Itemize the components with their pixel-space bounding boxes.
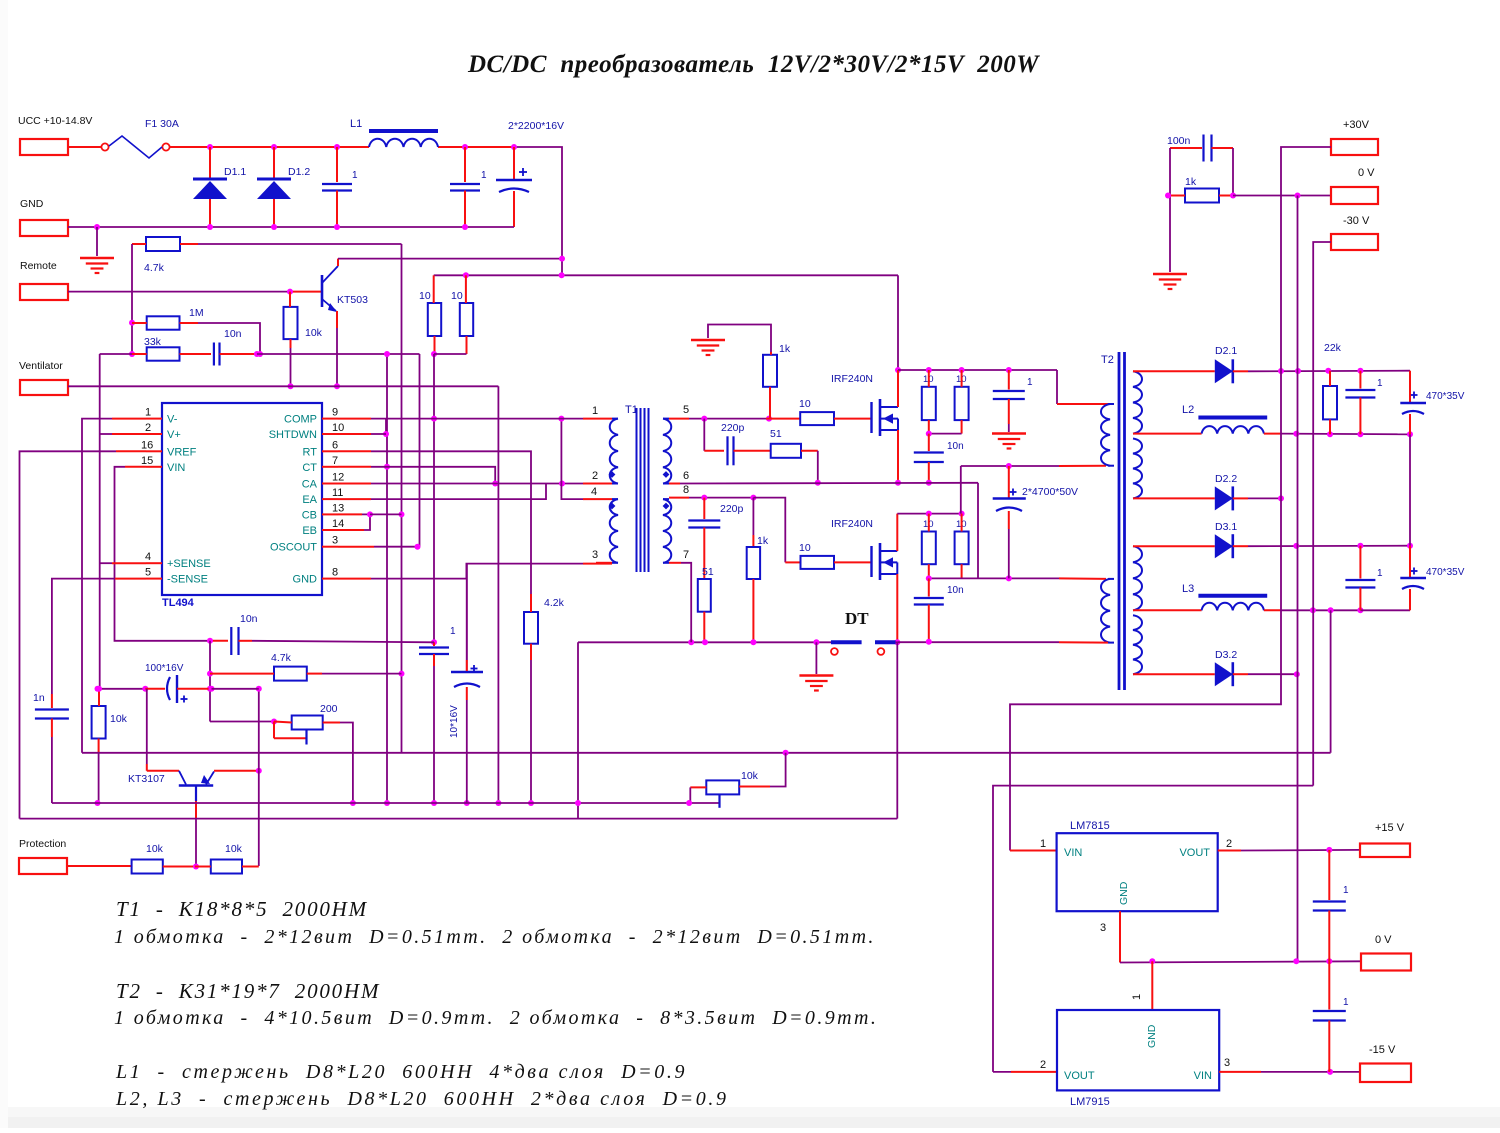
capacitor electrolytic 470*35V (-30V): [1411, 570, 1418, 572]
wire SHTDWN stub: [338, 433, 371, 435]
wire DT rail y642: [578, 641, 831, 643]
svg-text:10k: 10k: [305, 327, 323, 339]
svg-text:1n: 1n: [33, 692, 45, 704]
wire W2 bottom rail: [897, 641, 1059, 643]
wire Q1 drain: [897, 275, 899, 370]
T2 winding primary 2: [1101, 579, 1110, 643]
svg-text:22k: 22k: [1324, 342, 1342, 354]
T1 winding primary top (pins 1-2): [610, 419, 618, 484]
ground symbol input: [80, 257, 114, 260]
svg-text:1: 1: [1040, 838, 1046, 850]
pin SHTDWN stub: [322, 433, 338, 435]
svg-text:10k: 10k: [741, 770, 759, 782]
wire GND row (15V): [1120, 961, 1360, 962]
wire pin V- to row 752: [112, 418, 146, 420]
svg-text:33k: 33k: [144, 336, 162, 348]
svg-text:RT: RT: [303, 446, 318, 458]
svg-text:200: 200: [320, 703, 338, 715]
svg-text:UCC +10-14.8V: UCC +10-14.8V: [18, 115, 92, 127]
wire Ventilator row: [68, 385, 498, 387]
capacitor electrolytic 470*35V (+30V): [1411, 394, 1418, 396]
svg-text:VIN: VIN: [1064, 847, 1082, 859]
svg-text:T2: T2: [1101, 354, 1114, 366]
svg-text:10: 10: [799, 542, 811, 554]
svg-text:-SENSE: -SENSE: [167, 574, 208, 586]
wire T1 pin5 to gate node: [669, 418, 689, 420]
svg-text:220p: 220p: [720, 503, 744, 515]
svg-text:VREF: VREF: [167, 446, 197, 458]
wire pin V+ riser: [112, 433, 146, 435]
svg-text:DT: DT: [845, 609, 869, 628]
svg-text:2: 2: [592, 470, 598, 482]
wire DT gnd drop: [815, 642, 817, 674]
svg-text:Ventilator: Ventilator: [19, 360, 63, 372]
svg-text:DC/DC преобразователь 12V/2*: DC/DC преобразователь 12V/2*30V/2*15V 20…: [467, 51, 1040, 78]
svg-text:3: 3: [332, 535, 338, 547]
svg-text:IRF240N: IRF240N: [831, 518, 873, 530]
svg-text:4: 4: [145, 551, 151, 563]
wire vertical x210: [209, 641, 211, 722]
wire pin8 row to bottom gate: [689, 497, 753, 499]
T2 winding primary 1: [1101, 404, 1110, 466]
svg-text:220p: 220p: [721, 422, 745, 434]
svg-text:1M: 1M: [189, 307, 204, 319]
pin GND stub: [322, 578, 338, 580]
pin VREF stub: [146, 450, 162, 452]
svg-text:3: 3: [1224, 1057, 1230, 1069]
svg-text:0 V: 0 V: [1375, 934, 1392, 946]
svg-text:-30 V: -30 V: [1343, 215, 1370, 227]
svg-text:3: 3: [1100, 922, 1106, 934]
svg-text:GND: GND: [20, 198, 44, 210]
wire UCC to fuse: [68, 146, 101, 148]
wire source rail y483: [669, 483, 680, 485]
svg-text:1: 1: [352, 170, 358, 181]
wire bus 417 (dead-time): [419, 354, 421, 547]
wire T1 pin3 stub: [596, 562, 612, 564]
svg-text:100n: 100n: [1167, 135, 1191, 147]
svg-text:51: 51: [702, 566, 714, 578]
svg-text:12: 12: [332, 472, 344, 484]
svg-text:470*35V: 470*35V: [1426, 391, 1465, 402]
svg-text:F1 30A: F1 30A: [145, 118, 179, 130]
svg-text:L3: L3: [1182, 583, 1194, 595]
T1 winding secondary bottom (pins 8-7): [663, 499, 671, 563]
svg-text:14: 14: [332, 518, 344, 530]
svg-text:+SENSE: +SENSE: [167, 558, 211, 570]
svg-text:10n: 10n: [947, 441, 964, 452]
T1 winding secondary top (pins 5-6): [663, 419, 671, 484]
svg-text:COMP: COMP: [284, 414, 317, 426]
svg-text:7: 7: [683, 549, 689, 561]
svg-text:1: 1: [1027, 377, 1033, 388]
wire RC left leg to ground: [1169, 148, 1171, 272]
wire protection row: [67, 865, 132, 867]
IC U1 TL494 box: [162, 403, 322, 595]
svg-text:2*4700*50V: 2*4700*50V: [1022, 486, 1078, 498]
pin CA stub: [322, 483, 338, 485]
svg-text:4.2k: 4.2k: [544, 597, 565, 609]
svg-text:GND: GND: [293, 574, 318, 586]
svg-text:4: 4: [591, 486, 597, 498]
svg-text:EA: EA: [302, 494, 317, 506]
svg-text:2: 2: [145, 422, 151, 434]
svg-text:1: 1: [450, 626, 456, 637]
wire -30V to LM7915: [993, 786, 1313, 1072]
svg-text:10n: 10n: [240, 613, 258, 625]
svg-text:LM7815: LM7815: [1070, 820, 1110, 832]
wire row y818: [20, 818, 898, 820]
wire KT503 collector: [337, 259, 339, 266]
pin VIN stub: [146, 466, 162, 468]
wire 0V bus: [1297, 196, 1299, 962]
ground symbol (12V bypass): [992, 432, 1026, 435]
svg-text:7: 7: [332, 455, 338, 467]
svg-text:1: 1: [481, 170, 487, 181]
svg-text:1: 1: [1131, 994, 1143, 1000]
svg-text:3: 3: [592, 549, 598, 561]
wire row752 to -30V row link: [1330, 610, 1332, 753]
svg-text:1: 1: [1377, 568, 1383, 579]
svg-text:+15 V: +15 V: [1375, 822, 1405, 834]
wire KT3107 emitter: [206, 772, 214, 785]
svg-text:D3.1: D3.1: [1215, 521, 1237, 533]
svg-text:GND: GND: [1118, 881, 1130, 905]
svg-text:1k: 1k: [779, 343, 791, 355]
svg-text:D1.2: D1.2: [288, 166, 310, 178]
svg-text:8: 8: [332, 567, 338, 579]
svg-text:1k: 1k: [757, 535, 769, 547]
wire W1 bottom rail y466: [961, 465, 1059, 467]
svg-text:2: 2: [1226, 838, 1232, 850]
wire 0V link vertical: [1409, 434, 1411, 545]
svg-text:9: 9: [332, 407, 338, 419]
wire GND net vertical to rail: [466, 564, 468, 660]
wire T1 pin7 drop: [681, 563, 691, 643]
svg-text:D2.2: D2.2: [1215, 473, 1237, 485]
wire 200 wiper: [273, 722, 275, 739]
svg-text:D3.2: D3.2: [1215, 649, 1237, 661]
svg-text:10: 10: [799, 398, 811, 410]
svg-text:0 V: 0 V: [1358, 167, 1375, 179]
wire -30V terminal to bus: [1313, 242, 1331, 786]
svg-text:10: 10: [451, 290, 463, 302]
svg-text:KT503: KT503: [337, 294, 368, 306]
svg-text:KT3107: KT3107: [128, 773, 165, 785]
svg-text:T2 - K31*19*7 2000НМ: T2 - K31*19*7 2000НМ: [116, 979, 380, 1003]
T2 winding secondary D: [1133, 615, 1142, 674]
svg-text:8: 8: [683, 484, 689, 496]
wire emitter riser x258: [258, 689, 260, 771]
svg-text:1k: 1k: [1185, 176, 1197, 188]
wire bus 434 T1 pin1 net: [433, 354, 435, 642]
svg-text:1: 1: [145, 407, 151, 419]
svg-text:CA: CA: [302, 479, 318, 491]
wire LM7915 VIN to -15V: [1219, 1071, 1261, 1073]
svg-text:GND: GND: [1146, 1024, 1158, 1048]
wire 0V row top group: [1280, 433, 1410, 436]
wire +30V bus down to LM7815: [1010, 371, 1281, 851]
svg-text:-15 V: -15 V: [1369, 1044, 1396, 1056]
wire +30V rectifier row: [1248, 370, 1410, 373]
svg-text:2: 2: [1040, 1059, 1046, 1071]
T1 phase dots: [609, 471, 616, 478]
pin CT stub: [322, 466, 338, 468]
wire pin VIN down: [125, 466, 146, 468]
ground symbol (top gate): [691, 339, 725, 342]
svg-text:EB: EB: [302, 525, 317, 537]
svg-text:CT: CT: [302, 462, 317, 474]
svg-text:Remote: Remote: [20, 260, 57, 272]
svg-text:1: 1: [1343, 885, 1349, 896]
wire 33k row to bus 417: [100, 353, 132, 355]
svg-text:1: 1: [592, 405, 598, 417]
svg-text:V+: V+: [167, 429, 181, 441]
svg-text:51: 51: [770, 428, 782, 440]
svg-text:T1 - K18*8*5 2000НМ: T1 - K18*8*5 2000НМ: [116, 897, 368, 921]
wire Q2 drain tie: [896, 514, 898, 551]
wire +12V distribution row: [434, 274, 898, 276]
wire RC right leg: [1232, 148, 1234, 196]
wire 0V terminal row: [1233, 195, 1331, 197]
svg-text:SHTDWN: SHTDWN: [269, 429, 317, 441]
wire GND pin row with jog to T1 pin3: [338, 578, 371, 580]
svg-text:10k: 10k: [110, 713, 128, 725]
ground symbol (DT): [799, 674, 833, 677]
svg-text:10n: 10n: [947, 585, 964, 596]
wire KT3107 collector: [146, 689, 148, 764]
wire EA row jog: [338, 498, 371, 500]
wire RT to 4.2k bus: [338, 450, 371, 452]
wire T1 pin6 and pin8 stubs: [669, 497, 689, 499]
svg-text:6: 6: [332, 439, 338, 451]
svg-text:100*16V: 100*16V: [145, 663, 184, 674]
wire CT row: [338, 466, 371, 468]
svg-text:IRF240N: IRF240N: [831, 373, 873, 385]
svg-text:6: 6: [683, 470, 689, 482]
pin CB stub: [322, 513, 338, 515]
svg-text:470*35V: 470*35V: [1426, 567, 1465, 578]
svg-text:L2, L3 - стержень D8*L20 6: L2, L3 - стержень D8*L20 600НН 2*два сло…: [115, 1088, 729, 1110]
svg-text:1: 1: [1343, 997, 1349, 1008]
T2 winding secondary B: [1133, 439, 1142, 499]
svg-text:+30V: +30V: [1343, 119, 1370, 131]
svg-text:4.7k: 4.7k: [271, 652, 292, 664]
svg-text:V-: V-: [167, 414, 178, 426]
wire LM7815 VOUT to +15V: [1218, 850, 1241, 852]
wire EB stub red: [338, 529, 364, 531]
svg-text:L2: L2: [1182, 404, 1194, 416]
svg-text:10: 10: [419, 290, 431, 302]
svg-text:2*2200*16V: 2*2200*16V: [508, 120, 564, 132]
svg-text:VOUT: VOUT: [1179, 847, 1210, 859]
wire row gnd y803: [52, 802, 720, 804]
IC U3 LM7915: [1057, 1010, 1219, 1090]
node top rail junctions: [207, 144, 213, 150]
wire OSCOUT: [338, 546, 374, 548]
svg-text:LM7915: LM7915: [1070, 1096, 1110, 1108]
pin RT stub: [322, 450, 338, 452]
wire +30V terminal to bus: [1281, 147, 1331, 371]
svg-text:VIN: VIN: [1194, 1070, 1212, 1082]
svg-text:Protection: Protection: [19, 838, 66, 850]
svg-text:10: 10: [332, 422, 344, 434]
wire pin -SENSE to 1n: [115, 578, 146, 580]
svg-text:11: 11: [332, 487, 343, 499]
pin COMP stub: [322, 418, 338, 420]
wire 1M to 10n node: [198, 323, 260, 354]
svg-text:D1.1: D1.1: [224, 166, 246, 178]
wire +12V top rail: [170, 146, 369, 148]
wire gnd-rail riser x578: [577, 642, 579, 818]
capacitor electrolytic 2200uF: [519, 171, 527, 173]
wire drain rail y370: [898, 369, 1057, 371]
wire COMP to SHTDWN: [338, 418, 371, 420]
svg-text:OSCOUT: OSCOUT: [270, 542, 317, 554]
wire rail y578 to T2 W2 top: [929, 577, 1059, 579]
wire x210 to 200 pot: [210, 721, 274, 723]
wire bus 387 (CT net): [386, 354, 388, 803]
wire pin VREF to far left: [116, 450, 146, 452]
wire LM7815 GND: [1119, 911, 1121, 962]
wire bus 402 (soft start): [401, 244, 403, 753]
svg-text:D2.1: D2.1: [1215, 345, 1237, 357]
wire ground drop: [96, 227, 98, 256]
pin +SENSE stub: [146, 562, 162, 564]
svg-text:13: 13: [332, 502, 344, 514]
wire -30V row: [1280, 609, 1360, 611]
pin V+ stub: [146, 433, 162, 435]
svg-text:L1 - стержень D8*L20 600НН: L1 - стержень D8*L20 600НН 4*два слоя D=…: [115, 1061, 687, 1083]
svg-text:10k: 10k: [225, 843, 243, 855]
wire snubber tie top: [929, 433, 962, 435]
svg-text:10k: 10k: [146, 843, 164, 855]
wire CB EB tie: [338, 513, 362, 515]
T1 winding primary bottom (pins 4-3): [610, 499, 618, 563]
wire pin +SENSE: [112, 562, 146, 564]
T2 winding secondary A: [1133, 371, 1142, 433]
wire row 688 extension: [212, 688, 259, 690]
pin EB stub: [322, 529, 338, 531]
T2 winding secondary C: [1133, 546, 1142, 610]
bottom scan noise band: [0, 1107, 1500, 1128]
svg-text:1 обмотка - 2*12вит D=0.51m: 1 обмотка - 2*12вит D=0.51mm. 2 обмотка …: [114, 926, 876, 948]
pin -SENSE stub: [146, 578, 162, 580]
wire tie 10-resistor bottoms: [434, 353, 467, 355]
wire KT503 emitter to ventilator row: [336, 311, 338, 328]
svg-text:5: 5: [145, 567, 151, 579]
svg-text:1 обмотка - 4*10.5вит D=0.9: 1 обмотка - 4*10.5вит D=0.9mm. 2 обмотка…: [114, 1007, 878, 1029]
pin EA stub: [322, 498, 338, 500]
pin OSCOUT stub: [322, 546, 338, 548]
svg-text:10*16V: 10*16V: [449, 705, 460, 738]
svg-text:16: 16: [141, 439, 153, 451]
svg-text:10n: 10n: [224, 328, 242, 340]
svg-text:4.7k: 4.7k: [144, 262, 165, 274]
svg-text:VOUT: VOUT: [1064, 1070, 1095, 1082]
svg-text:1: 1: [1377, 378, 1383, 389]
svg-text:5: 5: [683, 404, 689, 416]
svg-text:CB: CB: [302, 509, 317, 521]
wire Q1 source to rail: [897, 430, 899, 483]
wire CA row to T1 pin 2: [338, 483, 371, 485]
ground symbol (output RC): [1153, 273, 1187, 276]
pin V- stub: [146, 418, 162, 420]
wire GND rail: [68, 226, 514, 228]
wire Q2 source down: [896, 574, 898, 642]
svg-text:VIN: VIN: [167, 462, 185, 474]
wire remote pullup to bus: [198, 243, 402, 245]
wire T1 pin1 row: [386, 418, 434, 420]
svg-text:15: 15: [141, 455, 153, 467]
wire Remote row: [68, 291, 290, 293]
svg-text:L1: L1: [350, 118, 362, 130]
wire T1 pin4 feed from pin1 bus: [561, 419, 583, 500]
wire row V- y752: [82, 752, 1331, 754]
svg-text:TL494: TL494: [162, 597, 195, 609]
wire ventilator bus 499: [497, 386, 499, 803]
wire 0V row bottom group: [1248, 545, 1410, 548]
wire bus x132: [131, 244, 133, 354]
